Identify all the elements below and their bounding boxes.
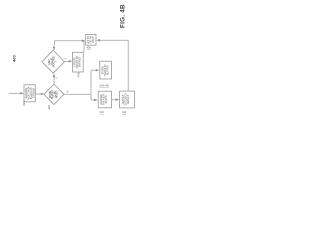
svg-text:444: 444: [122, 110, 127, 114]
wire riser to box434: [91, 69, 97, 71]
wire drop into diamond436 top: [53, 41, 56, 48]
wire box432 to diamond430: [35, 93, 42, 95]
box 438 text: [74, 55, 82, 68]
arrowhead right into box 436: [82, 40, 85, 43]
svg-text:BUFFER: BUFFER: [106, 65, 109, 75]
box 432 text: [25, 86, 36, 99]
svg-text:442: 442: [100, 110, 105, 114]
arrowhead into box A: [94, 99, 97, 102]
box 436 text: [87, 36, 95, 44]
wire diamond436 right to box438: [64, 60, 69, 62]
svg-text:400: 400: [12, 55, 17, 62]
arrowhead up into diamond 436: [53, 74, 56, 77]
diamond 430 (lower): [44, 84, 64, 104]
wire diamond430 top to diamond436 bottom: [53, 75, 55, 84]
diamond 436 (upper): [42, 50, 64, 73]
box A 442 (bottom left of pair): [98, 91, 111, 108]
svg-text:N: N: [66, 91, 70, 93]
box 438 (tall mid): [73, 52, 84, 72]
wire riser vertical x91: [90, 70, 92, 100]
arrowhead into box 432: [20, 92, 23, 95]
svg-text:FIG. 4B: FIG. 4B: [120, 4, 127, 28]
svg-text:RESULT: RESULT: [127, 94, 130, 104]
box 434 text: [101, 64, 109, 75]
wire start arrow into box 432: [9, 92, 22, 94]
arrowhead into diamond 430: [41, 93, 44, 96]
box 434 (right mid): [100, 61, 112, 79]
svg-text:434 440: 434 440: [100, 83, 110, 87]
svg-text:Y: Y: [55, 77, 59, 79]
wire box438 top riser: [83, 41, 85, 53]
svg-text:ENTRIES: ENTRIES: [79, 57, 82, 68]
wire boxB top up: [100, 40, 129, 91]
svg-text:436: 436: [87, 46, 92, 50]
svg-text:432: 432: [22, 101, 26, 106]
diamond 430 text: [50, 89, 59, 99]
svg-text:BLOCK: BLOCK: [105, 95, 108, 104]
wire diamond430 right to riser: [64, 93, 91, 95]
box 436 (top): [86, 34, 96, 45]
arrowhead left into box 436: [97, 39, 100, 42]
svg-text:Y: Y: [64, 58, 68, 60]
arrowhead down into diamond 436 top: [53, 47, 56, 50]
wire riser to boxA: [91, 99, 95, 101]
diamond 436 text: [49, 56, 58, 68]
arrowhead into box 438: [69, 60, 72, 63]
box 432 (left): [24, 85, 35, 102]
svg-text:STEP: STEP: [92, 36, 95, 43]
svg-text:430: 430: [47, 105, 51, 110]
wire boxA to boxB: [112, 99, 116, 101]
svg-text:STREAM: STREAM: [33, 88, 36, 98]
box B text: [122, 93, 130, 105]
svg-text:438: 438: [77, 72, 81, 77]
arrowhead into box B: [116, 98, 119, 101]
arrowhead into box 434: [96, 69, 99, 72]
wire top horizontal to box436: [55, 40, 83, 42]
box B 444 (bottom right): [120, 91, 135, 108]
svg-text:READ?: READ?: [56, 90, 59, 98]
box A text: [100, 93, 108, 105]
